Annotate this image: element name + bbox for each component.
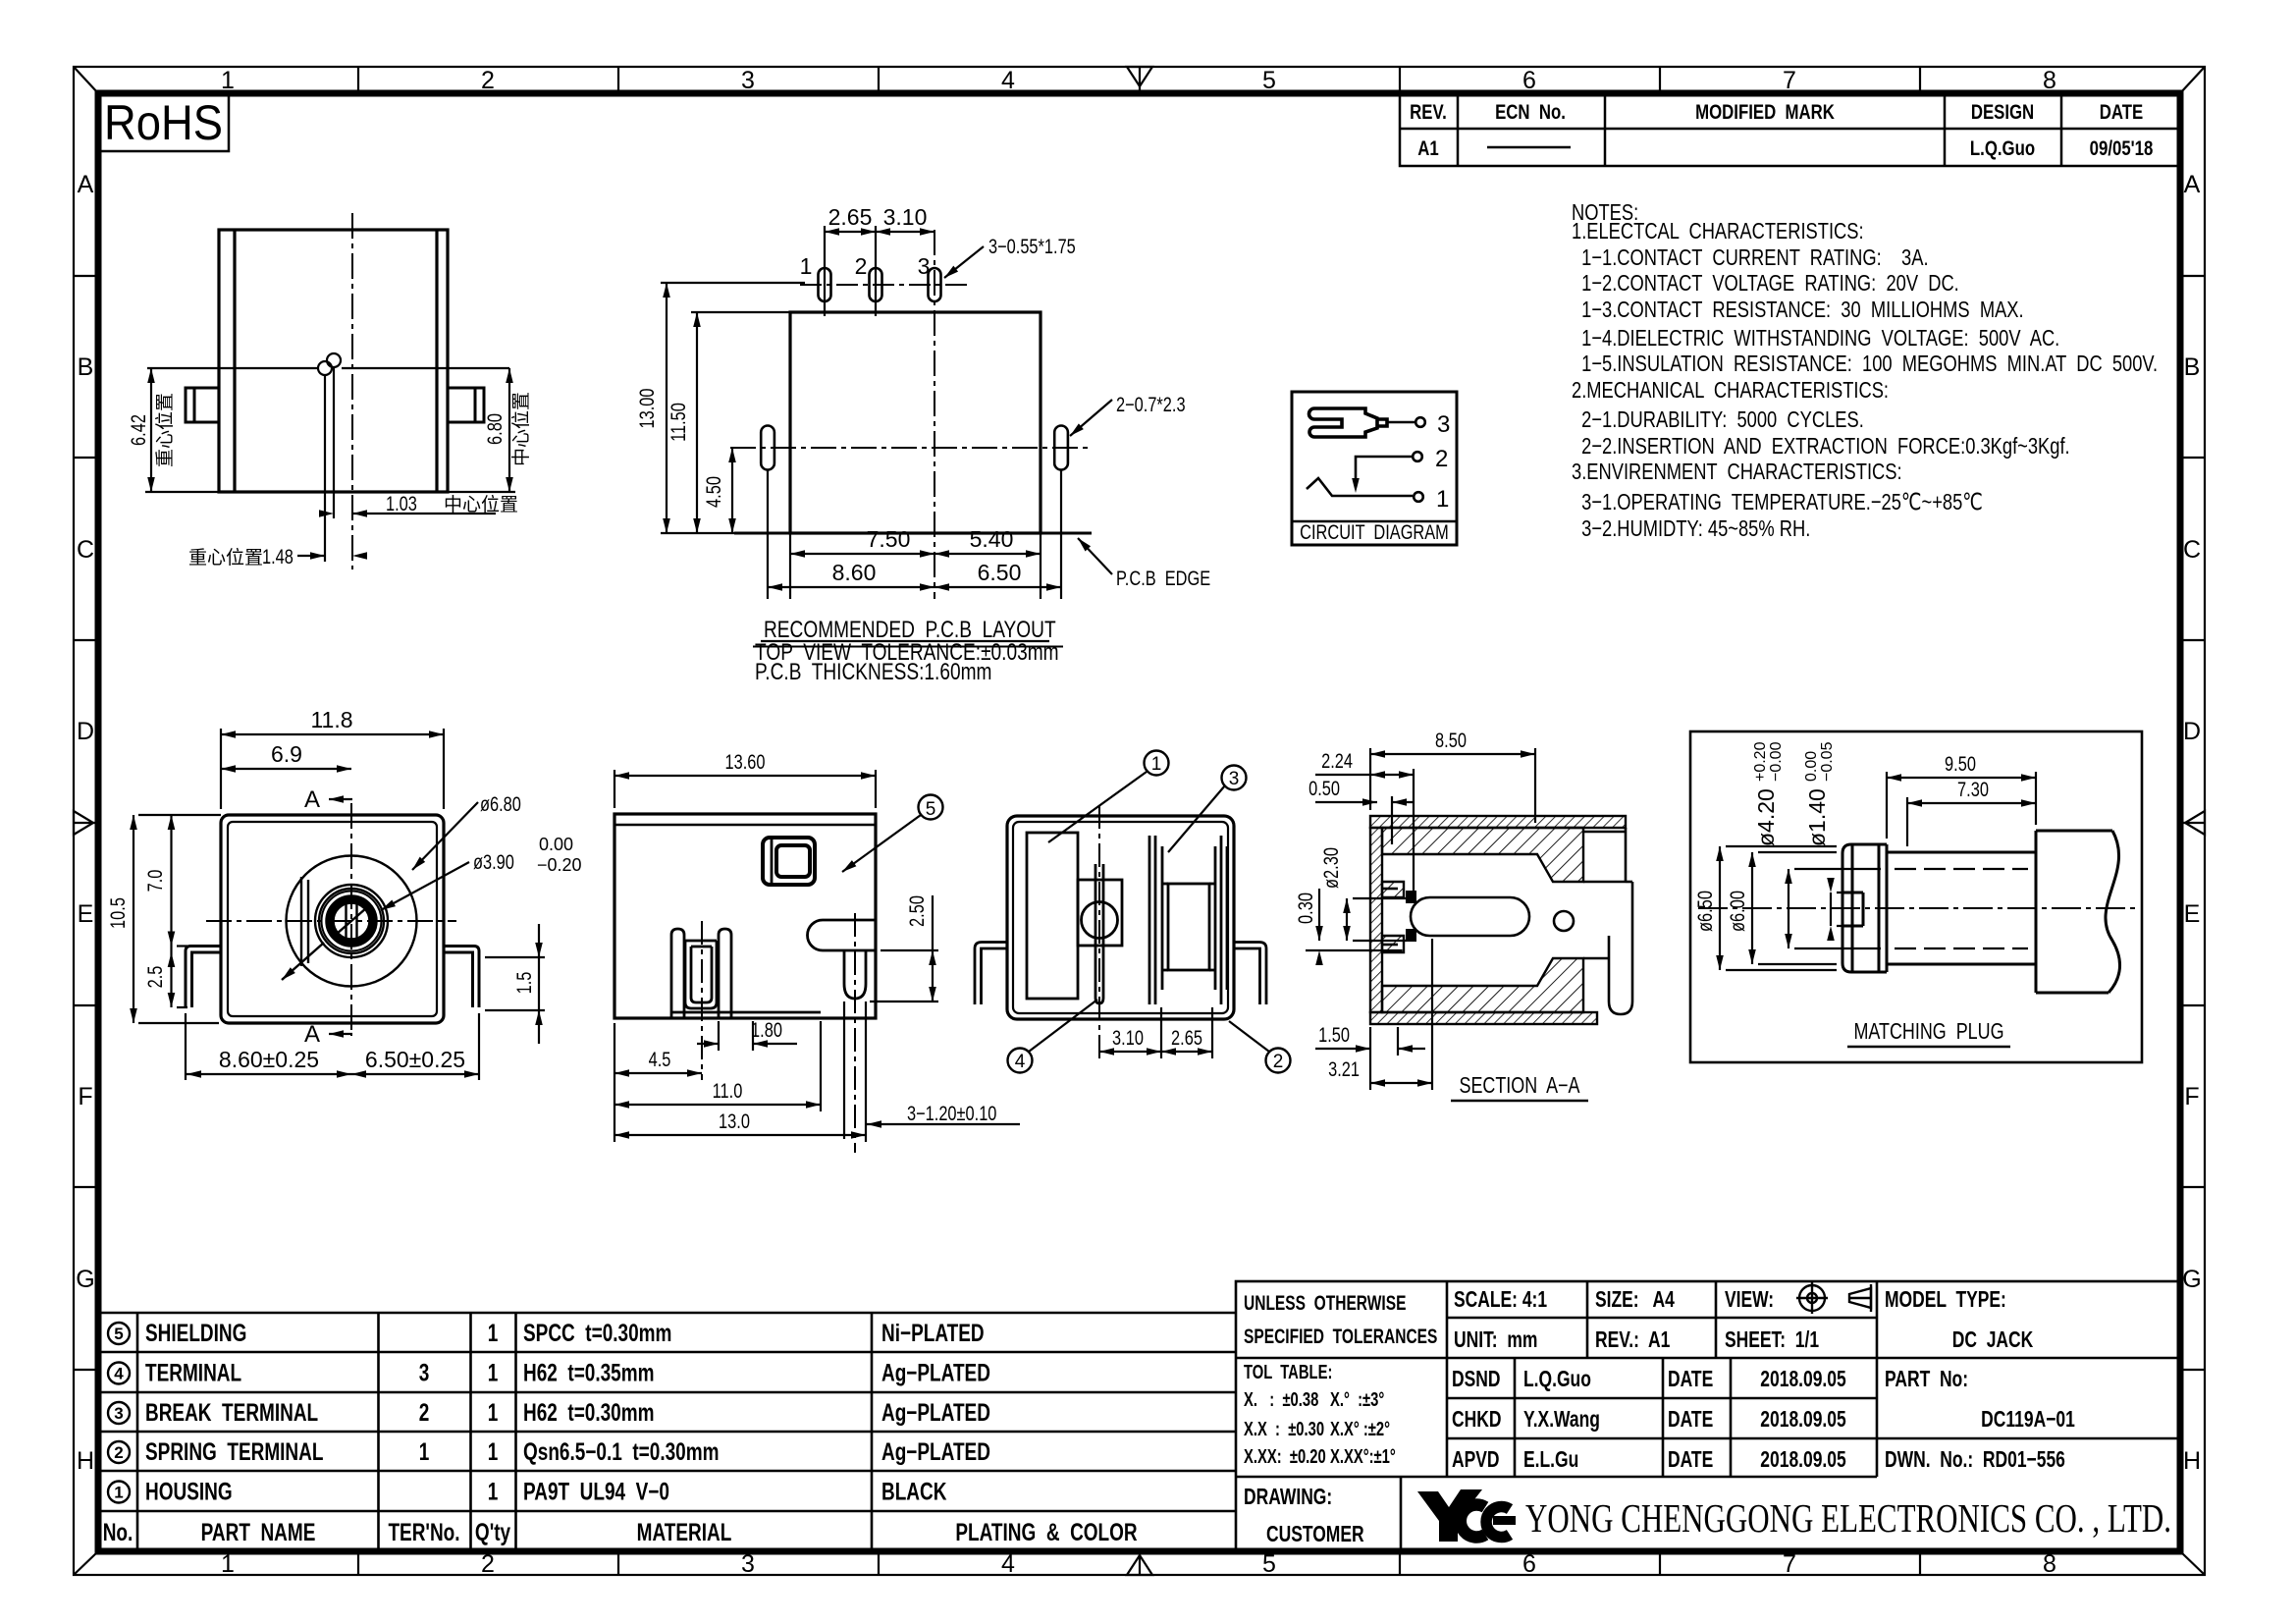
- svg-text:MATCHING PLUG: MATCHING PLUG: [1853, 1019, 2003, 1045]
- svg-text:MODIFIED MARK: MODIFIED MARK: [1695, 101, 1835, 124]
- svg-text:Ni−PLATED: Ni−PLATED: [881, 1319, 985, 1346]
- svg-text:10.5: 10.5: [106, 897, 129, 929]
- svg-text:重心位置: 重心位置: [188, 547, 263, 568]
- svg-text:DATE: DATE: [1668, 1408, 1713, 1433]
- svg-text:E: E: [2184, 900, 2201, 928]
- notes text: [1572, 200, 2158, 542]
- svg-text:1.50: 1.50: [1318, 1023, 1350, 1046]
- matching plug view: [1690, 731, 2142, 1062]
- svg-text:0.30: 0.30: [1294, 893, 1316, 924]
- side view of DC jack: [614, 750, 1020, 1153]
- svg-text:G: G: [2182, 1266, 2201, 1293]
- svg-text:7: 7: [1783, 67, 1796, 94]
- svg-text:CIRCUIT DIAGRAM: CIRCUIT DIAGRAM: [1300, 520, 1449, 543]
- svg-text:2.50: 2.50: [905, 895, 928, 927]
- svg-text:Ag−PLATED: Ag−PLATED: [881, 1359, 990, 1386]
- svg-text:C: C: [77, 536, 94, 564]
- svg-text:2.MECHANICAL CHARACTERISTICS:: 2.MECHANICAL CHARACTERISTICS:: [1572, 378, 1889, 404]
- svg-text:X. : ±0.38: X. : ±0.38: [1244, 1388, 1319, 1411]
- svg-text:SCALE: 4:1: SCALE: 4:1: [1454, 1288, 1547, 1313]
- svg-text:APVD: APVD: [1452, 1448, 1500, 1473]
- svg-text:REV.: REV.: [1410, 101, 1447, 124]
- svg-text:8: 8: [2043, 1550, 2056, 1578]
- svg-text:P.C.B THICKNESS:1.60mm: P.C.B THICKNESS:1.60mm: [755, 658, 991, 685]
- svg-text:7.30: 7.30: [1957, 778, 1989, 800]
- svg-text:PART NAME: PART NAME: [201, 1518, 316, 1545]
- svg-text:SPCC t=0.30mm: SPCC t=0.30mm: [523, 1319, 671, 1346]
- svg-text:SPECIFIED TOLERANCES: SPECIFIED TOLERANCES: [1244, 1325, 1437, 1348]
- revision table: [1400, 93, 2180, 166]
- pin 1 terminal: [1414, 486, 1449, 513]
- svg-text:Qsn6.5−0.1 t=0.30mm: Qsn6.5−0.1 t=0.30mm: [523, 1437, 719, 1465]
- svg-text:1: 1: [419, 1437, 430, 1465]
- svg-text:No.: No.: [103, 1518, 133, 1545]
- svg-text:X.X : ±0.30: X.X : ±0.30: [1244, 1418, 1324, 1440]
- svg-text:TER'No.: TER'No.: [388, 1518, 459, 1545]
- svg-text:6: 6: [1522, 67, 1536, 94]
- svg-text:1: 1: [488, 1398, 499, 1426]
- svg-text:1−5.INSULATION RESISTANCE: 1: 1−5.INSULATION RESISTANCE: 100 MEGOHMS M…: [1581, 352, 2158, 377]
- svg-text:DATE: DATE: [1668, 1448, 1713, 1473]
- svg-text:DATE: DATE: [2100, 101, 2143, 124]
- svg-text:SIZE: A4: SIZE: A4: [1595, 1288, 1675, 1313]
- svg-text:DRAWING:: DRAWING:: [1244, 1486, 1332, 1510]
- svg-text:SPRING TERMINAL: SPRING TERMINAL: [145, 1437, 323, 1465]
- svg-text:MATERIAL: MATERIAL: [637, 1518, 732, 1545]
- svg-text:2.24: 2.24: [1321, 749, 1353, 772]
- svg-text:Ag−PLATED: Ag−PLATED: [881, 1398, 990, 1426]
- svg-text:VIEW:: VIEW:: [1725, 1288, 1774, 1313]
- svg-text:CUSTOMER: CUSTOMER: [1266, 1523, 1364, 1547]
- svg-text:TOL TABLE:: TOL TABLE:: [1244, 1361, 1332, 1383]
- svg-text:1.48: 1.48: [262, 545, 294, 568]
- svg-text:8.60: 8.60: [832, 560, 877, 585]
- svg-text:1−2.CONTACT VOLTAGE RATING:: 1−2.CONTACT VOLTAGE RATING: 20V DC.: [1581, 271, 1959, 297]
- pin 2 wire: [1352, 457, 1412, 493]
- svg-text:SHIELDING: SHIELDING: [145, 1319, 246, 1346]
- svg-text:H: H: [77, 1447, 94, 1475]
- svg-text:Q'ty: Q'ty: [475, 1518, 511, 1545]
- svg-text:2: 2: [1273, 1052, 1284, 1072]
- svg-text:DWN. No.: RD01−556: DWN. No.: RD01−556: [1885, 1448, 2065, 1473]
- svg-text:F: F: [78, 1083, 92, 1110]
- svg-text:1.80: 1.80: [751, 1018, 782, 1041]
- svg-text:13.60: 13.60: [725, 750, 766, 773]
- svg-text:3: 3: [741, 67, 755, 94]
- svg-text:3: 3: [741, 1550, 755, 1578]
- svg-text:F: F: [2184, 1083, 2199, 1110]
- svg-text:1: 1: [1436, 486, 1449, 513]
- svg-text:3: 3: [419, 1359, 430, 1386]
- svg-text:1.03: 1.03: [386, 492, 417, 514]
- svg-text:C: C: [2183, 536, 2201, 564]
- svg-text:H62 t=0.30mm: H62 t=0.30mm: [523, 1398, 655, 1426]
- svg-text:09/05'18: 09/05'18: [2090, 137, 2154, 160]
- svg-text:7.50: 7.50: [867, 526, 911, 552]
- svg-text:6: 6: [1522, 1550, 1536, 1578]
- svg-text:1: 1: [221, 1550, 235, 1578]
- svg-text:7.0: 7.0: [143, 870, 166, 893]
- svg-text:0.00: 0.00: [1803, 751, 1820, 782]
- svg-text:UNLESS OTHERWISE: UNLESS OTHERWISE: [1244, 1291, 1406, 1315]
- svg-text:BREAK TERMINAL: BREAK TERMINAL: [145, 1398, 318, 1426]
- svg-text:DC JACK: DC JACK: [1952, 1328, 2034, 1353]
- svg-text:ø1.40: ø1.40: [1804, 788, 1830, 846]
- svg-text:HOUSING: HOUSING: [145, 1478, 233, 1505]
- svg-text:P.C.B EDGE: P.C.B EDGE: [1116, 567, 1210, 589]
- svg-text:1: 1: [1151, 754, 1162, 775]
- svg-text:L.Q.Guo: L.Q.Guo: [1523, 1368, 1591, 1392]
- svg-text:G: G: [76, 1266, 94, 1293]
- svg-text:4: 4: [1001, 67, 1015, 94]
- svg-text:13.00: 13.00: [635, 389, 658, 429]
- svg-text:X.XX: ±0.20: X.XX: ±0.20: [1244, 1445, 1326, 1468]
- svg-text:6.50±0.25: 6.50±0.25: [365, 1047, 465, 1072]
- svg-text:6.50: 6.50: [978, 560, 1022, 585]
- svg-text:5.40: 5.40: [970, 526, 1014, 552]
- svg-text:DATE: DATE: [1668, 1368, 1713, 1392]
- svg-text:2−1.DURABILITY: 5000 CYCLES.: 2−1.DURABILITY: 5000 CYCLES.: [1581, 407, 1864, 433]
- internal side view with part references: [975, 751, 1291, 1073]
- svg-text:X.XX°:±1°: X.XX°:±1°: [1330, 1445, 1396, 1468]
- svg-text:7: 7: [1783, 1550, 1796, 1578]
- svg-text:DC119A−01: DC119A−01: [1981, 1408, 2075, 1433]
- svg-text:−0.05: −0.05: [1819, 741, 1836, 782]
- svg-text:1: 1: [800, 253, 813, 279]
- svg-text:X.X° :±2°: X.X° :±2°: [1330, 1418, 1390, 1440]
- svg-text:DESIGN: DESIGN: [1971, 101, 2034, 124]
- svg-text:SHEET: 1/1: SHEET: 1/1: [1725, 1328, 1819, 1353]
- section A-A view: [1294, 729, 1632, 1101]
- pin 3 terminal: [1415, 411, 1450, 438]
- front view of DC jack housing: [127, 213, 532, 569]
- svg-text:6.80: 6.80: [483, 413, 506, 445]
- svg-text:6.9: 6.9: [271, 741, 302, 767]
- svg-text:3.21: 3.21: [1328, 1057, 1360, 1080]
- svg-text:ø3.90: ø3.90: [473, 850, 514, 873]
- svg-text:2: 2: [419, 1398, 430, 1426]
- svg-text:中心位置: 中心位置: [444, 494, 518, 515]
- svg-text:B: B: [2184, 353, 2201, 381]
- svg-text:3−0.55*1.75: 3−0.55*1.75: [988, 235, 1076, 257]
- svg-text:CHKD: CHKD: [1452, 1408, 1501, 1433]
- svg-text:6.42: 6.42: [127, 414, 149, 446]
- svg-text:RoHS: RoHS: [104, 95, 223, 150]
- svg-text:9.50: 9.50: [1945, 752, 1976, 775]
- svg-text:MODEL TYPE:: MODEL TYPE:: [1885, 1288, 2006, 1313]
- svg-text:2018.09.05: 2018.09.05: [1760, 1368, 1845, 1392]
- svg-text:A: A: [78, 171, 94, 198]
- svg-text:5: 5: [114, 1325, 123, 1343]
- svg-text:11.0: 11.0: [713, 1079, 743, 1102]
- svg-text:2018.09.05: 2018.09.05: [1760, 1448, 1845, 1473]
- svg-text:5: 5: [926, 799, 936, 820]
- svg-text:ECN No.: ECN No.: [1495, 101, 1566, 124]
- svg-text:H: H: [2183, 1447, 2201, 1475]
- svg-text:3: 3: [114, 1404, 123, 1423]
- svg-text:2: 2: [481, 1550, 495, 1578]
- svg-text:8: 8: [2043, 67, 2056, 94]
- svg-text:2.5: 2.5: [143, 966, 166, 989]
- svg-text:2.65: 2.65: [1171, 1026, 1202, 1049]
- svg-text:3.10: 3.10: [883, 204, 928, 230]
- svg-text:ø6.80: ø6.80: [480, 792, 521, 815]
- svg-text:TERMINAL: TERMINAL: [145, 1359, 241, 1386]
- svg-text:11.8: 11.8: [310, 707, 352, 732]
- svg-text:4: 4: [1001, 1550, 1015, 1578]
- svg-text:ø6.50: ø6.50: [1693, 891, 1716, 932]
- svg-text:A: A: [304, 786, 320, 813]
- svg-text:2−2.INSERTION AND EXTRACTION: 2−2.INSERTION AND EXTRACTION FORCE:0.3Kg…: [1581, 434, 2070, 460]
- svg-text:A: A: [304, 1021, 320, 1048]
- svg-text:3−1.OPERATING TEMPERATURE.−25: 3−1.OPERATING TEMPERATURE.−25℃~+85℃: [1581, 490, 1983, 515]
- svg-text:PA9T UL94 V−0: PA9T UL94 V−0: [523, 1478, 669, 1505]
- RoHS mark: [99, 93, 229, 151]
- svg-text:ø6.00: ø6.00: [1726, 891, 1748, 932]
- svg-text:2: 2: [481, 67, 495, 94]
- svg-text:1: 1: [488, 1478, 499, 1505]
- svg-text:−0.00: −0.00: [1768, 741, 1785, 782]
- svg-text:5: 5: [1262, 67, 1276, 94]
- svg-text:B: B: [78, 353, 94, 381]
- svg-text:4: 4: [1015, 1052, 1026, 1072]
- svg-text:1: 1: [488, 1319, 499, 1346]
- svg-text:SECTION A−A: SECTION A−A: [1459, 1073, 1579, 1099]
- svg-text:13.0: 13.0: [719, 1110, 750, 1132]
- svg-text:E.L.Gu: E.L.Gu: [1523, 1448, 1578, 1473]
- parts list table: [98, 1313, 1236, 1551]
- svg-text:3−1.20±0.10: 3−1.20±0.10: [907, 1102, 996, 1124]
- svg-text:X.° :±3°: X.° :±3°: [1330, 1388, 1384, 1411]
- svg-text:5: 5: [1262, 1550, 1276, 1578]
- svg-text:1.ELECTCAL CHARACTERISTICS:: 1.ELECTCAL CHARACTERISTICS:: [1572, 219, 1864, 244]
- svg-text:YONG CHENGGONG ELECTRONICS CO.: YONG CHENGGONG ELECTRONICS CO. , LTD.: [1525, 1495, 2171, 1541]
- svg-text:2: 2: [1435, 446, 1448, 472]
- svg-text:UNIT: mm: UNIT: mm: [1454, 1328, 1537, 1353]
- svg-text:1: 1: [114, 1484, 123, 1502]
- svg-text:Y.X.Wang: Y.X.Wang: [1523, 1408, 1600, 1433]
- svg-text:1: 1: [221, 67, 235, 94]
- pin 1 spring contact wire: [1307, 478, 1413, 496]
- svg-text:4.50: 4.50: [702, 476, 724, 508]
- svg-text:3: 3: [1437, 411, 1450, 438]
- pin 2 terminal: [1413, 446, 1448, 472]
- svg-text:3.10: 3.10: [1112, 1026, 1144, 1049]
- svg-text:L.Q.Guo: L.Q.Guo: [1970, 137, 2035, 160]
- svg-text:ø4.20: ø4.20: [1753, 788, 1779, 846]
- svg-text:H62 t=0.35mm: H62 t=0.35mm: [523, 1359, 655, 1386]
- svg-text:+0.20: +0.20: [1752, 741, 1769, 782]
- svg-text:PART No:: PART No:: [1885, 1368, 1968, 1392]
- svg-text:2.65: 2.65: [828, 204, 873, 230]
- svg-text:4: 4: [114, 1365, 124, 1383]
- title block: [1236, 1281, 2180, 1551]
- pin 3 wire: [1387, 421, 1415, 424]
- svg-text:E: E: [78, 900, 94, 928]
- svg-text:1−4.DIELECTRIC WITHSTANDING: 1−4.DIELECTRIC WITHSTANDING VOLTAGE: 500…: [1581, 326, 2059, 352]
- plug contact symbol: [1309, 408, 1387, 437]
- svg-text:3.ENVIRENMENT CHARACTERISTICS: 3.ENVIRENMENT CHARACTERISTICS:: [1572, 460, 1902, 485]
- svg-text:中心位置: 中心位置: [510, 392, 532, 466]
- svg-text:0.00: 0.00: [539, 835, 573, 854]
- circuit diagram box: [1292, 392, 1457, 545]
- svg-text:1−3.CONTACT RESISTANCE: 30: 1−3.CONTACT RESISTANCE: 30 MILLIOHMS MAX…: [1581, 298, 2023, 323]
- svg-text:−0.20: −0.20: [537, 855, 582, 875]
- svg-text:1: 1: [488, 1359, 499, 1386]
- svg-text:2: 2: [855, 253, 868, 279]
- svg-text:DSND: DSND: [1452, 1368, 1500, 1392]
- svg-text:3: 3: [918, 253, 931, 279]
- svg-text:2018.09.05: 2018.09.05: [1760, 1408, 1845, 1433]
- svg-text:4.5: 4.5: [649, 1048, 671, 1070]
- svg-text:3−2.HUMIDTY: 45~85% RH.: 3−2.HUMIDTY: 45~85% RH.: [1581, 516, 1810, 542]
- svg-text:D: D: [77, 718, 94, 745]
- svg-text:PLATING & COLOR: PLATING & COLOR: [955, 1518, 1137, 1545]
- svg-text:REV.: A1: REV.: A1: [1595, 1328, 1670, 1353]
- svg-text:ø2.30: ø2.30: [1319, 847, 1342, 889]
- svg-text:1: 1: [488, 1437, 499, 1465]
- svg-text:8.60±0.25: 8.60±0.25: [219, 1047, 319, 1072]
- svg-text:1.5: 1.5: [512, 972, 535, 995]
- svg-text:8.50: 8.50: [1435, 729, 1467, 751]
- svg-text:1−1.CONTACT CURRENT RATING:: 1−1.CONTACT CURRENT RATING: 3A.: [1581, 245, 1928, 271]
- svg-text:11.50: 11.50: [667, 403, 689, 442]
- svg-text:0.50: 0.50: [1308, 777, 1340, 799]
- svg-text:Ag−PLATED: Ag−PLATED: [881, 1437, 990, 1465]
- svg-text:2−0.7*2.3: 2−0.7*2.3: [1116, 393, 1186, 415]
- top view of DC jack: [106, 707, 582, 1080]
- svg-text:A: A: [2184, 171, 2201, 198]
- svg-text:2: 2: [114, 1443, 123, 1462]
- svg-text:A1: A1: [1417, 137, 1439, 160]
- svg-text:重心位置: 重心位置: [154, 393, 176, 467]
- svg-text:3: 3: [1229, 769, 1240, 789]
- svg-text:D: D: [2183, 718, 2201, 745]
- svg-text:BLACK: BLACK: [881, 1478, 946, 1505]
- recommended PCB layout view: [635, 204, 1210, 685]
